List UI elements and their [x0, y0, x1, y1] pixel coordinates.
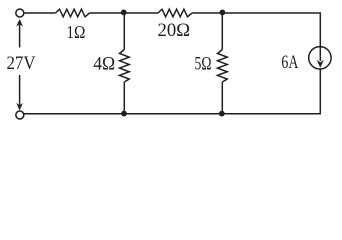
- svg-text:4Ω: 4Ω: [93, 54, 115, 75]
- wire top rail: R1 to R2: [90, 12, 159, 14]
- wire: node 1 down to R3: [123, 13, 125, 50]
- svg-text:27V: 27V: [7, 53, 36, 74]
- junction node 1 bottom: [121, 111, 127, 117]
- wire top rail: terminal a to R1: [24, 12, 56, 14]
- wire: node 2 down to R4: [221, 13, 223, 50]
- resistor R1: [56, 9, 90, 17]
- resistor R3: [120, 50, 130, 83]
- svg-text:5Ω: 5Ω: [195, 53, 212, 74]
- resistor R4: [218, 50, 228, 83]
- wire bottom rail: [24, 113, 321, 115]
- wire right side lower: [319, 69, 321, 114]
- current source I1: [309, 47, 331, 69]
- terminal node b (bottom-left, open circle): [16, 111, 24, 119]
- voltage source V1 arrow upper segment (arrowhead up): [16, 19, 23, 48]
- junction node 2 bottom: [219, 111, 225, 117]
- wire right side upper: [319, 13, 321, 47]
- resistor R2: [158, 9, 192, 17]
- svg-text:20Ω: 20Ω: [158, 20, 191, 41]
- voltage source V1 arrow lower segment (arrowhead down): [16, 75, 23, 111]
- terminal node a (top-left, open circle): [16, 9, 24, 17]
- junction node 1 top: [121, 10, 127, 16]
- wire top rail: R2 to top-right corner: [192, 12, 321, 14]
- svg-text:1Ω: 1Ω: [66, 22, 85, 42]
- svg-text:6A: 6A: [281, 52, 298, 73]
- wire: R4 to bottom rail: [221, 82, 223, 114]
- junction node 2 top: [220, 10, 226, 16]
- wire: R3 to bottom rail: [123, 82, 125, 114]
